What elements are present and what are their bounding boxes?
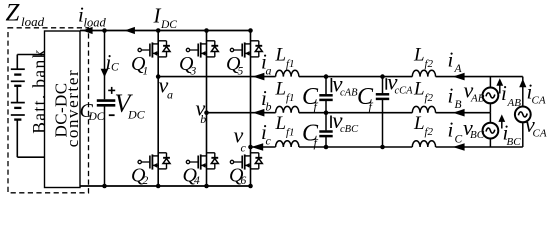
arrow i_b — [253, 109, 265, 117]
wire cap column 1 (cap to b) — [325, 101, 327, 113]
svg-text:AB: AB — [470, 93, 485, 105]
svg-text:6: 6 — [241, 175, 247, 187]
svg-text:L: L — [413, 44, 425, 65]
label C_f (CA) — [357, 84, 374, 114]
node cap column 2 at phase a — [380, 74, 385, 79]
node bottom rail junction — [248, 184, 253, 189]
label v_a — [159, 72, 174, 101]
svg-text:DC: DC — [127, 107, 146, 121]
svg-text:i: i — [448, 47, 454, 71]
svg-text:CA: CA — [532, 94, 546, 106]
label L_f2 phase b — [413, 79, 434, 104]
polarity - of V_DC — [109, 114, 115, 116]
svg-text:DC: DC — [160, 19, 177, 31]
svg-text:5: 5 — [238, 65, 244, 77]
node top rail / C_DC tap — [102, 28, 107, 33]
svg-text:BC: BC — [507, 136, 522, 148]
svg-text:cBC: cBC — [340, 124, 359, 135]
svg-text:f1: f1 — [286, 92, 295, 104]
label L_f1 phase c — [275, 113, 295, 138]
wire phase c (L_f1 to L_f2) — [299, 146, 412, 148]
label C_DC — [80, 100, 105, 123]
node cap column 1 at phase a — [324, 74, 329, 79]
svg-text:L: L — [275, 79, 287, 100]
wire phase b (L_f2 to grid) — [436, 112, 491, 114]
svg-text:i: i — [448, 118, 454, 142]
label I_DC — [153, 4, 178, 31]
arrow I_DC — [125, 27, 135, 34]
arrow i_BC — [498, 114, 505, 128]
wire inverter leg 2 — [206, 31, 208, 187]
svg-text:b: b — [266, 99, 272, 113]
svg-text:a: a — [266, 63, 272, 77]
svg-text:f1: f1 — [286, 58, 295, 70]
label L_f1 phase b — [275, 79, 295, 104]
node phase c output — [248, 145, 253, 150]
wire cap column 1 (cap to c) — [325, 137, 327, 147]
label Q5 — [226, 53, 244, 77]
DC-DC converter block — [45, 31, 81, 188]
label v_b — [196, 95, 207, 125]
svg-text:cCA: cCA — [395, 85, 414, 96]
label v_cCA — [386, 70, 413, 97]
arrow i_AB — [496, 78, 503, 93]
svg-text:b: b — [200, 112, 206, 126]
wire C_DC branch upper — [104, 31, 106, 100]
label C_f (BC) — [302, 120, 319, 150]
wire source column 2 (a corner down) — [522, 77, 524, 107]
label Q6 — [229, 165, 247, 188]
arrow i_A — [453, 73, 465, 81]
label v_CA — [525, 112, 547, 140]
capacitor C_f (CA) — [376, 94, 389, 99]
node cap column 2 at phase c — [380, 145, 385, 150]
node top rail junction — [248, 28, 253, 33]
wire phase b (inverter to L_f1) — [207, 112, 276, 114]
label i_c — [261, 120, 272, 148]
label Q4 — [183, 165, 201, 188]
wire source column 1 (a to v_AB) — [489, 77, 491, 88]
wire source column 1 (b to v_BC) — [489, 113, 491, 123]
svg-text:cAB: cAB — [340, 87, 358, 98]
node cap column 1 at phase b — [324, 110, 329, 115]
transistor Q5 — [230, 41, 262, 58]
svg-text:L: L — [275, 45, 287, 66]
svg-text:A: A — [454, 63, 463, 75]
svg-text:f1: f1 — [286, 126, 295, 138]
arrow i_B — [453, 109, 465, 117]
label Z_load — [6, 0, 45, 29]
source v_CA — [515, 107, 531, 123]
label i_CA — [527, 79, 546, 106]
arrow i_C grid — [453, 143, 465, 151]
label Batt. bank — [29, 48, 49, 133]
label i_load — [78, 3, 106, 30]
svg-text:C: C — [455, 133, 463, 145]
capacitor C_f (AB) — [319, 95, 332, 100]
arrow i_C — [101, 69, 109, 78]
arrow i_load — [82, 27, 92, 34]
wire phase a (L_f2 to grid) — [436, 76, 523, 78]
svg-text:2: 2 — [143, 175, 149, 187]
source v_BC — [483, 123, 499, 139]
node top rail junction — [156, 28, 161, 33]
wire phase c (inverter to L_f1) — [251, 146, 276, 148]
svg-text:CA: CA — [533, 128, 547, 140]
label Q1 — [131, 53, 148, 77]
label Q2 — [131, 165, 149, 188]
wire C_DC branch lower — [104, 105, 106, 186]
source v_AB — [483, 88, 499, 104]
svg-text:1: 1 — [143, 65, 149, 77]
svg-text:c: c — [266, 134, 272, 148]
transistor Q3 — [186, 41, 218, 58]
wire top DC rail — [80, 30, 251, 32]
svg-text:f2: f2 — [425, 126, 434, 138]
svg-text:f2: f2 — [425, 58, 434, 70]
node phase b output — [204, 110, 209, 115]
battery bank cells — [11, 55, 45, 158]
svg-text:BC: BC — [470, 129, 485, 141]
label i_C — [106, 50, 120, 74]
load impedance boundary Z_load (dashed box) — [8, 28, 89, 193]
node phase a output — [156, 74, 161, 79]
wire cap column 2 (a to cap) — [382, 77, 384, 94]
label i_b — [261, 86, 272, 114]
svg-text:L: L — [413, 79, 425, 100]
svg-text:load: load — [84, 15, 107, 29]
label DC-DC converter — [51, 69, 82, 148]
svg-text:i: i — [448, 83, 454, 107]
svg-text:3: 3 — [190, 65, 197, 77]
inductor L_f1 phase b — [276, 106, 299, 112]
svg-text:c: c — [241, 141, 247, 155]
wire phase a (inverter to L_f1) — [158, 76, 275, 78]
arrow i_c — [251, 143, 263, 151]
wire source column 2 (v_CA to c corner) — [522, 122, 524, 147]
inductor L_f2 phase a — [412, 70, 435, 76]
node cap column 1 at phase c — [324, 145, 329, 150]
label v_cBC — [331, 108, 359, 135]
svg-text:Z: Z — [6, 0, 21, 27]
capacitor C_f (BC) — [319, 132, 332, 137]
svg-text:L: L — [413, 113, 425, 134]
svg-text:L: L — [275, 113, 287, 134]
label v_cAB — [331, 72, 358, 99]
inductor L_f2 phase c — [412, 141, 435, 147]
svg-text:f2: f2 — [425, 92, 434, 104]
node top rail junction — [204, 28, 209, 33]
node bottom rail / C_DC tap — [102, 184, 107, 189]
inductor L_f2 phase b — [412, 106, 435, 112]
label i_C grid — [448, 118, 463, 146]
wire cap column 2 (cap to c) — [382, 100, 384, 147]
wire phase a (L_f1 to L_f2) — [299, 76, 412, 78]
polarity + of V_DC — [108, 87, 115, 94]
svg-text:4: 4 — [194, 175, 200, 187]
svg-text:load: load — [21, 14, 45, 29]
label L_f2 phase c — [413, 113, 434, 138]
svg-text:C: C — [111, 62, 119, 74]
svg-text:DC: DC — [88, 111, 105, 123]
svg-text:i: i — [501, 81, 507, 105]
arrow i_CA — [519, 79, 526, 88]
svg-text:a: a — [167, 88, 173, 102]
capacitor C_DC — [97, 101, 116, 106]
inductor L_f1 phase a — [276, 70, 299, 76]
wire source column 1 (v_BC to c) — [489, 138, 491, 147]
label v_AB — [464, 77, 485, 104]
label Q3 — [179, 53, 197, 77]
wire source column 1 (v_AB to b) — [489, 103, 491, 113]
label L_f1 phase a — [275, 45, 295, 70]
label V_DC — [115, 89, 146, 122]
transistor Q1 — [138, 41, 170, 58]
label L_f2 phase a — [413, 44, 434, 69]
node bottom rail junction — [156, 184, 161, 189]
wire bottom DC rail — [80, 185, 251, 187]
label v_BC — [463, 115, 485, 141]
svg-text:B: B — [455, 99, 462, 111]
transistor Q6 — [230, 153, 262, 170]
label v_c — [234, 123, 247, 155]
wire phase b (L_f1 to L_f2) — [299, 112, 412, 114]
arrow i_a — [253, 73, 265, 81]
wire cap column 1 (a to cap) — [325, 77, 327, 95]
wire inverter leg 3 — [250, 31, 252, 187]
wire phase c (L_f2 to grid) — [436, 146, 523, 148]
label i_A — [448, 47, 463, 75]
transistor Q2 — [138, 153, 170, 170]
svg-text:Batt. bank: Batt. bank — [29, 48, 49, 133]
label i_BC — [503, 121, 522, 148]
wire inverter leg 1 — [157, 31, 159, 187]
inductor L_f1 phase c — [276, 141, 299, 147]
wire cap column 1 (b to cap) — [325, 113, 327, 131]
label C_f (AB) — [302, 84, 319, 114]
transistor Q4 — [186, 153, 218, 170]
node bottom rail junction — [204, 184, 209, 189]
label i_AB — [501, 81, 521, 109]
label i_a — [261, 50, 272, 78]
label i_B — [448, 83, 462, 111]
